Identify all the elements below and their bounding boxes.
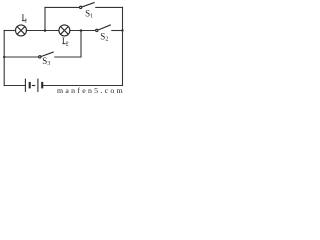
node A junction dot <box>44 29 47 32</box>
battery cell 2 short plate <box>41 82 43 89</box>
wire riser node B down <box>80 31 82 58</box>
switch S3 <box>39 52 54 58</box>
node D junction dot (left T) <box>3 56 5 58</box>
wire bottom left segment <box>4 85 25 87</box>
wire middle left segment <box>4 56 38 58</box>
battery cell 1 short plate <box>29 82 31 89</box>
wire branch vertical from node A up <box>44 7 46 30</box>
svg-text:2: 2 <box>66 41 69 47</box>
node B junction dot <box>80 29 83 32</box>
wire top branch horizontal right <box>96 6 123 8</box>
switch S1 <box>80 2 95 8</box>
wire right vertical <box>122 7 124 85</box>
battery inter-cell connector wire <box>32 85 35 87</box>
wire left vertical <box>3 31 5 86</box>
wire middle right segment <box>55 56 81 58</box>
switch S2 <box>96 25 111 32</box>
wire bottom right segment <box>43 85 123 87</box>
wire main between L1 and L2 <box>26 30 59 32</box>
wire main between L2 and S2 <box>70 30 95 32</box>
node C junction dot (right T) <box>121 29 123 31</box>
battery B1 <box>25 79 42 92</box>
lamp L1 <box>16 25 27 36</box>
wire main left segment <box>4 30 15 32</box>
battery cell 2 long plate <box>37 79 39 92</box>
background <box>0 0 129 94</box>
battery cell 1 long plate <box>24 79 26 92</box>
svg-text:1: 1 <box>24 18 27 24</box>
svg-text:manfen5.com: manfen5.com <box>57 86 125 94</box>
wire top branch horizontal left <box>45 6 79 8</box>
wire main right of S2 <box>112 30 123 32</box>
lamp L2 <box>59 25 70 36</box>
